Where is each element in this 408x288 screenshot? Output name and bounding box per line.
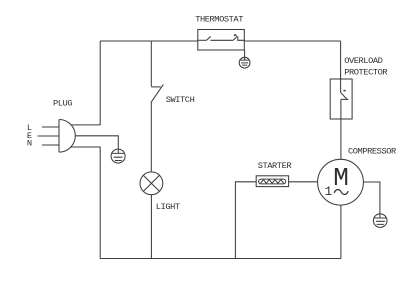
- svg-text:THERMOSTAT: THERMOSTAT: [195, 15, 243, 25]
- ground (plug earth): [111, 149, 125, 163]
- lamp (light): [140, 172, 163, 195]
- overload contact: [341, 79, 349, 119]
- wire lamp to bottom rail: [150, 195, 152, 259]
- plug pin L: [42, 126, 59, 128]
- wire plug line to top rail: [71, 41, 100, 125]
- wire top rail right (thermostat to overload branch): [244, 40, 340, 42]
- starter outer box: [256, 176, 288, 187]
- wire compressor bottom to rail: [340, 205, 342, 258]
- svg-text:STARTER: STARTER: [258, 161, 292, 171]
- wire switch to lamp: [150, 103, 152, 172]
- compressor ~ symbol: [334, 190, 348, 195]
- switch contact: [151, 85, 163, 103]
- plug body: [59, 120, 75, 153]
- starter coil: [259, 179, 286, 184]
- svg-text:PLUG: PLUG: [53, 99, 72, 109]
- plug pin N: [42, 144, 59, 146]
- wire starter left to bottom rail: [235, 182, 256, 259]
- wire compressor right to ground: [363, 182, 380, 214]
- wire thermostat ground stem: [244, 50, 246, 57]
- svg-text:1: 1: [325, 185, 333, 199]
- svg-text:OVERLOAD: OVERLOAD: [344, 56, 382, 66]
- wire plug neutral down to bottom rail: [70, 147, 100, 259]
- ground (thermostat): [239, 57, 250, 68]
- wire bottom rail: [100, 258, 341, 260]
- overload protector box: [330, 79, 352, 119]
- wire overload branch down: [340, 41, 342, 79]
- wire compressor left to starter: [289, 181, 318, 183]
- thermostat box: [198, 30, 245, 51]
- wire plug earth to ground: [75, 136, 118, 149]
- wire top rail left (plug to thermostat): [100, 40, 198, 42]
- svg-text:SWITCH: SWITCH: [166, 95, 195, 105]
- svg-text:COMPRESSOR: COMPRESSOR: [348, 146, 396, 156]
- svg-text:N: N: [27, 138, 32, 148]
- svg-text:M: M: [333, 163, 349, 193]
- thermostat contacts: [198, 34, 245, 40]
- compressor circle: [318, 159, 364, 205]
- wire overload to compressor: [340, 119, 342, 159]
- svg-text:LIGHT: LIGHT: [156, 202, 180, 212]
- svg-text:PROTECTOR: PROTECTOR: [344, 67, 387, 77]
- switch S branch wire from rail: [150, 41, 152, 87]
- ground (compressor): [373, 214, 387, 228]
- plug pin E: [38, 135, 60, 137]
